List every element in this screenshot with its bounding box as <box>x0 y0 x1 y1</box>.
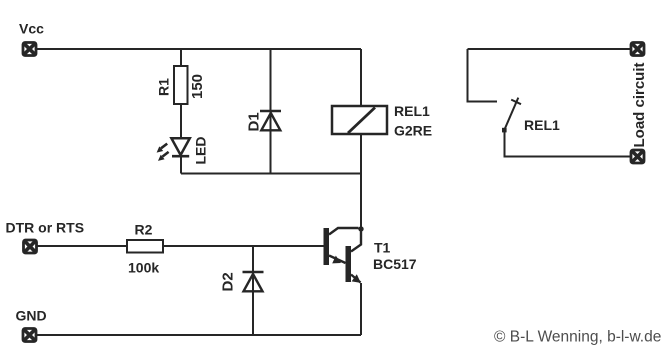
svg-text:DTR or RTS: DTR or RTS <box>6 220 85 236</box>
wire LED/D1 bottom rail <box>181 173 361 175</box>
diode D2 <box>243 272 264 291</box>
node collector junction <box>358 226 363 231</box>
diode D1 <box>260 111 281 130</box>
svg-text:D1: D1 <box>246 112 263 131</box>
svg-text:100k: 100k <box>128 260 159 276</box>
terminal load circuit top <box>631 43 644 56</box>
transistor T1 <box>324 228 362 283</box>
wire D1 top <box>270 49 272 174</box>
svg-text:150: 150 <box>189 74 206 99</box>
svg-text:R1: R1 <box>156 78 172 96</box>
terminal load circuit bottom <box>631 150 644 163</box>
terminal GND <box>23 329 36 342</box>
switch REL1 contact <box>502 98 521 133</box>
wire emitter to ground rail <box>360 283 362 335</box>
LED <box>157 138 190 161</box>
wire R2 to transistor base <box>163 245 324 247</box>
svg-text:BC517: BC517 <box>373 256 417 272</box>
resistor R2 <box>127 240 163 253</box>
svg-text:D2: D2 <box>220 272 237 291</box>
terminal Vcc <box>23 43 36 56</box>
wire Vcc supply rail <box>37 48 361 50</box>
svg-text:T1: T1 <box>374 240 391 256</box>
wire load top to switch <box>468 48 631 50</box>
svg-text:LED: LED <box>193 137 209 165</box>
svg-text:R2: R2 <box>135 222 153 238</box>
svg-text:© B-L Wenning, b-l-w.de: © B-L Wenning, b-l-w.de <box>494 329 661 346</box>
wire DTR to R2 <box>37 245 127 247</box>
resistor R1 <box>174 66 188 104</box>
relay coil REL1 <box>332 106 387 134</box>
svg-text:Vcc: Vcc <box>19 21 44 37</box>
wire switch feed <box>468 49 498 102</box>
terminal DTR or RTS <box>24 240 37 253</box>
wire switch to load bottom <box>505 131 631 157</box>
wire D2 top <box>252 246 254 335</box>
wire R1 to LED <box>180 104 182 138</box>
svg-text:REL1: REL1 <box>524 117 560 133</box>
svg-text:G2RE: G2RE <box>394 123 432 139</box>
wire LED cathode <box>180 156 182 174</box>
svg-text:Load circuit: Load circuit <box>631 62 648 147</box>
wire relay top <box>360 49 362 106</box>
wire R1 top <box>180 49 182 66</box>
wire ground rail <box>37 334 361 336</box>
wire relay coil to collector node <box>360 134 362 229</box>
svg-text:GND: GND <box>16 308 47 324</box>
svg-text:REL1: REL1 <box>394 103 430 119</box>
